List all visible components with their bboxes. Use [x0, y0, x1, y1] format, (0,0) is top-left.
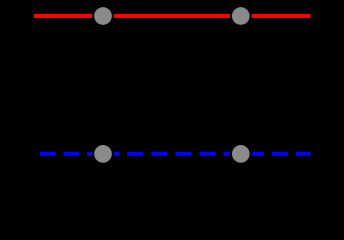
node B ring (dark edge)	[230, 5, 252, 27]
node B	[232, 7, 250, 25]
wire: red solid edge (top)	[34, 14, 311, 18]
wire: blue dashed edge segment right (dash phase restarts at node B)	[103, 152, 311, 156]
node A ring (dark edge)	[92, 5, 114, 27]
wire: blue dashed edge segment left (dash phase starts at x=40)	[40, 152, 103, 156]
node D ring (dark edge)	[230, 143, 252, 165]
node C	[94, 145, 112, 163]
node C ring (dark edge)	[92, 143, 114, 165]
node D	[232, 145, 250, 163]
node A	[94, 7, 112, 25]
